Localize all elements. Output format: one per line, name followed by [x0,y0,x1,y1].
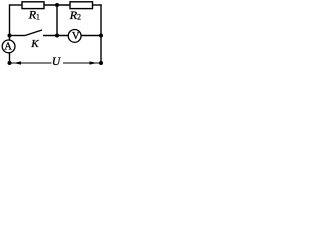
svg-text:V: V [72,31,80,42]
node terminal bottom-left [8,61,12,65]
wire right vertical [100,4,102,63]
wire top-left horizontal [10,4,23,6]
node junction right middle [99,34,103,38]
node terminal bottom-right [99,61,103,65]
wire voltmeter right lead [81,35,101,37]
wire left vertical lower [9,53,11,63]
node junction center middle [55,34,59,38]
node junction between R1 and R2 [55,3,59,7]
voltage arrow U right half [63,61,100,64]
wire top-right horizontal [93,4,102,6]
wire switch right lead [43,35,69,37]
svg-text:1: 1 [36,12,40,21]
wire left vertical upper [9,4,11,40]
node junction left middle [8,34,12,38]
voltmeter V [68,30,81,43]
wire center vertical [56,5,58,36]
svg-text:2: 2 [77,12,81,21]
resistor R1 [22,2,44,22]
svg-text:K: K [30,38,39,50]
svg-text:U: U [52,55,61,68]
wire switch left lead [10,35,26,37]
wire top-middle horizontal [44,4,70,6]
voltage arrow U left half [11,61,52,64]
switch K blade [25,30,42,50]
svg-text:A: A [4,42,12,53]
resistor R2 [69,2,93,22]
ammeter A [2,40,15,53]
